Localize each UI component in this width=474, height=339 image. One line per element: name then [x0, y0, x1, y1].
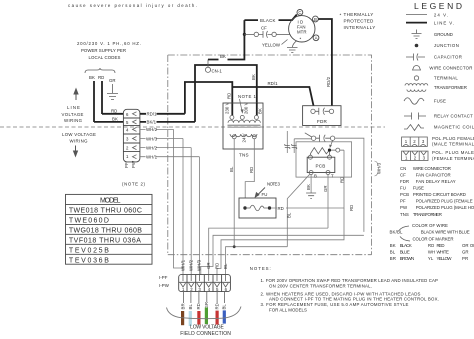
svg-text:RD: RD	[249, 167, 254, 173]
contact 2 symbol	[316, 135, 331, 142]
svg-text:TWE018 THRU 060C: TWE018 THRU 060C	[69, 208, 142, 215]
legend junction	[415, 44, 419, 48]
svg-text:(MALE TERMINAL): (MALE TERMINAL)	[432, 141, 474, 146]
svg-text:BK: BK	[112, 117, 118, 122]
svg-text:GR: GR	[109, 78, 116, 83]
ground symbol pcb	[306, 193, 316, 198]
svg-text:200/230 V. 1 PH.,60 HZ.: 200/230 V. 1 PH.,60 HZ.	[77, 41, 141, 46]
svg-text:RD: RD	[278, 206, 284, 211]
wire WH/2 row out of block	[140, 128, 174, 130]
svg-text:2: 2	[126, 146, 129, 151]
inline plug symbols	[285, 144, 297, 149]
svg-text:VOLTAGE: VOLTAGE	[62, 112, 84, 117]
contact 2 arm diagonal	[305, 133, 312, 137]
svg-text:2: 2	[414, 156, 417, 161]
wire dot up to contact	[331, 140, 333, 146]
model table box	[66, 194, 153, 264]
svg-text:AND CONNECT I-PF TO THE MATING: AND CONNECT I-PF TO THE MATING PLUG IN T…	[269, 297, 439, 302]
transformer primary terminals	[230, 115, 234, 119]
svg-text:BK: BK	[89, 75, 95, 80]
svg-text:BR: BR	[390, 256, 396, 261]
svg-text:B: B	[314, 17, 317, 22]
circuit board PCB box	[307, 157, 335, 172]
field wire light blue	[189, 311, 192, 326]
ground symbol motor	[287, 48, 298, 53]
wire dot to PCB top	[329, 152, 331, 156]
svg-text:BL: BL	[223, 263, 228, 269]
svg-text:RD/2: RD/2	[326, 76, 331, 87]
coil right terminal	[336, 148, 340, 152]
svg-text:WIRING: WIRING	[70, 139, 89, 144]
svg-text:PF: PF	[400, 199, 406, 204]
wire WH/2 row 2 out of block	[140, 147, 191, 149]
svg-text:BR: BR	[181, 303, 186, 309]
wire BK motor feed	[208, 20, 244, 59]
svg-text:GR: GR	[462, 250, 469, 255]
transformer primary winding	[228, 120, 260, 123]
wire WH/1 row out of block	[140, 156, 200, 158]
svg-text:WH/1: WH/1	[146, 155, 158, 160]
transformer core	[228, 125, 261, 127]
wire BK power drop	[93, 81, 95, 122]
wire RD to terminal block	[102, 113, 124, 115]
bus WH/3 wire	[201, 235, 364, 274]
svg-text:T: T	[331, 174, 334, 179]
bus BL wire	[226, 247, 288, 275]
legend capacitor	[406, 54, 425, 61]
svg-text:TEV025B: TEV025B	[69, 248, 109, 255]
svg-text:BL: BL	[188, 304, 193, 310]
svg-text:1: 1	[405, 139, 408, 144]
svg-text:TWG018 THRU 060B: TWG018 THRU 060B	[69, 228, 142, 235]
svg-text:FUSE: FUSE	[413, 185, 424, 190]
svg-text:ON 200V CENTER TRANSFORMER TER: ON 200V CENTER TRANSFORMER TERMINAL.	[269, 283, 372, 288]
svg-text:1: 1	[405, 156, 408, 161]
motor terminal B	[313, 16, 319, 22]
wire RD/2 from motor B to FDR	[318, 19, 332, 106]
svg-text:NOTE 1: NOTE 1	[238, 94, 257, 99]
wire BK/1 out of block	[140, 121, 195, 123]
wire RD into transformer	[231, 87, 233, 115]
svg-text:COLOR OF WIRE: COLOR OF WIRE	[412, 223, 448, 228]
svg-text:YELLOW: YELLOW	[437, 256, 453, 261]
wire RD power drop	[101, 81, 103, 114]
svg-text:FU: FU	[262, 192, 268, 197]
svg-text:PROTECTED: PROTECTED	[344, 19, 374, 24]
wire RD/1 branch to FDR	[232, 87, 313, 106]
magnetic coil zigzag	[311, 148, 330, 155]
svg-text:GR: GR	[323, 185, 328, 192]
svg-text:*: *	[300, 37, 302, 42]
svg-text:INTERNALLY: INTERNALLY	[344, 25, 376, 30]
svg-text:JUNCTION: JUNCTION	[434, 43, 459, 48]
svg-text:3: 3	[423, 156, 426, 161]
terminal block row separators	[123, 118, 139, 152]
svg-text:BK: BK	[257, 108, 262, 114]
svg-text:BLACK: BLACK	[260, 18, 276, 23]
svg-text:BK: BK	[251, 74, 256, 80]
svg-text:5: 5	[126, 120, 129, 125]
svg-text:1: 1	[126, 154, 129, 159]
svg-text:YELLOW: YELLOW	[262, 43, 281, 48]
svg-text:2: 2	[413, 139, 416, 144]
svg-text:CF: CF	[261, 26, 267, 31]
wire to fan capacitor	[244, 33, 254, 35]
legend transformer	[405, 84, 428, 86]
wire drop WH b	[182, 139, 184, 275]
svg-text:FAN DELAY RELAY: FAN DELAY RELAY	[416, 179, 456, 184]
svg-text:BL: BL	[229, 166, 234, 172]
svg-text:FDR: FDR	[400, 179, 409, 184]
svg-text:WIRING: WIRING	[64, 118, 83, 123]
transformer TNS box	[223, 103, 263, 149]
svg-text:NOTES:: NOTES:	[250, 266, 271, 271]
svg-text:MODEL: MODEL	[100, 198, 121, 205]
wire GR ground lead	[112, 84, 114, 93]
wire RD/1 riser	[185, 82, 232, 114]
svg-text:CF: CF	[400, 172, 406, 177]
wire drop WH c	[190, 148, 192, 275]
low voltage down arrow	[75, 146, 77, 153]
svg-text:3: 3	[126, 137, 129, 142]
svg-text:WIRE CONNECTOR: WIRE CONNECTOR	[429, 66, 472, 71]
connector female V terminals	[180, 283, 228, 287]
wire BK to ground	[310, 175, 312, 194]
svg-text:BK/BL: BK/BL	[390, 230, 404, 235]
svg-text:FOR ALL MODELS: FOR ALL MODELS	[269, 307, 307, 312]
svg-text:230 V: 230 V	[224, 102, 229, 114]
svg-text:RD: RD	[227, 93, 232, 99]
low/line voltage divider dashed	[0, 126, 385, 128]
svg-text:LINE V.: LINE V.	[434, 20, 454, 25]
svg-text:TEV036B: TEV036B	[69, 257, 109, 264]
svg-text:LINE: LINE	[67, 105, 80, 110]
svg-text:BLACK: BLACK	[400, 243, 412, 248]
svg-text:GR: GR	[206, 262, 211, 269]
wire RD secondary to fuse	[245, 139, 254, 198]
svg-text:FAN CAPACITOR: FAN CAPACITOR	[416, 172, 451, 177]
svg-text:BROWN: BROWN	[400, 256, 415, 261]
field wire red 1	[197, 311, 200, 325]
svg-text:PW: PW	[400, 205, 408, 210]
svg-text:PF: PF	[124, 162, 129, 168]
legend ground	[412, 30, 422, 39]
svg-text:(NOTE 2): (NOTE 2)	[122, 182, 146, 187]
svg-text:LOW VOLTAGE: LOW VOLTAGE	[62, 132, 96, 137]
svg-text:RED: RED	[437, 243, 445, 248]
note1 arrow	[240, 99, 243, 112]
PCB assembly outer box	[296, 142, 352, 177]
svg-text:TRANSFORMER: TRANSFORMER	[413, 212, 442, 217]
svg-text:RD: RD	[214, 303, 219, 309]
svg-text:RD: RD	[349, 205, 354, 211]
legend pol plug female	[402, 137, 428, 146]
legend fuse	[404, 98, 424, 105]
svg-text:TWE060D: TWE060D	[69, 218, 109, 225]
svg-text:RD/1: RD/1	[268, 81, 279, 86]
svg-text:BL: BL	[390, 250, 396, 255]
fuse junction dots	[243, 206, 246, 209]
svg-text:GROUND: GROUND	[434, 32, 453, 37]
svg-text:TRANSFORMER: TRANSFORMER	[434, 85, 467, 90]
connector cell dividers	[187, 275, 222, 292]
svg-text:6: 6	[126, 112, 129, 117]
svg-text:NOTE 3: NOTE 3	[267, 182, 281, 187]
svg-text:WH/3: WH/3	[146, 136, 158, 141]
yellow label pointer	[282, 40, 288, 45]
unit enclosure dash-dot boundary	[168, 55, 372, 255]
svg-text:C: C	[298, 10, 301, 15]
FDR contact symbol	[315, 108, 329, 115]
svg-text:BK/1: BK/1	[147, 120, 157, 125]
bus GR wire	[209, 228, 328, 275]
FDR contact terminals	[311, 109, 315, 113]
svg-text:BLUE: BLUE	[400, 250, 410, 255]
svg-text:cause severe personal injury o: cause severe personal injury or death.	[68, 3, 197, 8]
wire plug vertical I-PF	[286, 131, 288, 153]
transformer secondary terminals	[232, 135, 236, 139]
svg-text:WH/1: WH/1	[180, 259, 185, 271]
svg-text:BL: BL	[222, 304, 227, 310]
svg-text:POWER SUPPLY PER: POWER SUPPLY PER	[81, 48, 126, 53]
svg-text:CN-1: CN-1	[212, 69, 223, 74]
brace over power wires	[85, 68, 115, 73]
relay contact 2 left lead	[294, 138, 311, 140]
motor terminal C	[297, 10, 303, 16]
color of wire pointer	[399, 226, 409, 231]
connector pins top row	[183, 275, 226, 281]
svg-text:A: A	[315, 36, 318, 41]
svg-text:*: *	[340, 13, 342, 18]
wire BK/1 riser to transformer	[195, 65, 257, 122]
wire yellow cap to motor	[276, 33, 289, 35]
svg-text:RELAY CONTACT: RELAY CONTACT	[434, 114, 473, 119]
svg-text:THERMALLY: THERMALLY	[344, 12, 374, 17]
svg-text:3: 3	[422, 139, 425, 144]
svg-text:RD: RD	[339, 177, 344, 183]
svg-text:WIRE CONNECTOR: WIRE CONNECTOR	[413, 166, 451, 171]
PCB top terminals	[308, 155, 312, 159]
svg-text:1. FOR 200V OPERATION SWAP RED: 1. FOR 200V OPERATION SWAP RED TRANSFORM…	[261, 278, 439, 283]
motor ID FAN MTR body	[289, 16, 315, 42]
contact 2 terminals	[311, 136, 315, 140]
capacitor CF terminals	[254, 32, 258, 36]
junction BL transformer	[233, 245, 236, 248]
svg-text:24 V.: 24 V.	[434, 12, 448, 17]
connector lead stubs	[183, 292, 224, 303]
svg-text:RD: RD	[111, 109, 117, 114]
svg-text:B: B	[314, 174, 317, 179]
svg-text:FDR: FDR	[317, 119, 328, 124]
capacitor CF symbol	[259, 31, 272, 38]
fuse element	[247, 205, 268, 211]
wire WH/3 row out of block	[140, 138, 183, 140]
legend relay contact	[404, 113, 426, 120]
svg-text:TERMINAL: TERMINAL	[434, 76, 459, 81]
connector plug PF/PW body	[179, 275, 231, 292]
legend pol plug male	[402, 151, 428, 160]
svg-text:24 V: 24 V	[242, 133, 247, 142]
transformer secondary winding	[230, 134, 257, 137]
svg-text:COLOR OF MARKER: COLOR OF MARKER	[413, 237, 454, 242]
svg-text:RD: RD	[98, 75, 104, 80]
model table row lines	[66, 204, 153, 254]
PCB bottom terminals	[309, 171, 313, 175]
gather brace	[167, 307, 242, 319]
svg-text:PRINTED CIRCUIT BOARD: PRINTED CIRCUIT BOARD	[413, 192, 466, 197]
svg-text:I-PF: I-PF	[159, 275, 168, 280]
terminal block TB body	[123, 109, 139, 162]
connector mid line	[179, 281, 231, 283]
legend line V	[406, 22, 427, 24]
svg-text:BK: BK	[220, 54, 226, 59]
wire BL secondary	[233, 139, 235, 247]
svg-text:YL: YL	[428, 256, 434, 261]
svg-text:WHITE: WHITE	[437, 250, 450, 255]
svg-text:PR: PR	[462, 256, 468, 261]
fuse FU box	[239, 198, 276, 218]
wire connector CN-1	[205, 67, 210, 72]
terminal block female terminals	[133, 112, 137, 159]
ground symbol power	[107, 94, 118, 100]
line voltage up arrow	[75, 92, 77, 100]
svg-text:POL. PLUG MALE: POL. PLUG MALE	[432, 150, 474, 155]
wire drop WH d	[198, 157, 200, 275]
svg-text:MTR: MTR	[297, 30, 307, 35]
svg-text:RD: RD	[428, 243, 434, 248]
svg-text:WH: WH	[428, 250, 435, 255]
note3 arrow	[257, 188, 265, 196]
svg-text:PW: PW	[131, 160, 136, 168]
field wire blue	[223, 310, 226, 323]
svg-text:BL: BL	[287, 212, 292, 218]
wire RD fuse output	[271, 150, 344, 208]
svg-text:FIELD CONNECTION: FIELD CONNECTION	[180, 331, 231, 337]
bus RD wire	[217, 208, 344, 275]
svg-text:RD: RD	[196, 303, 201, 309]
svg-text:WH/2: WH/2	[189, 259, 194, 271]
svg-text:LOCAL CODES: LOCAL CODES	[89, 55, 121, 60]
legend terminal	[414, 76, 418, 80]
legend magnetic coil	[404, 125, 424, 131]
svg-text:OR OR: OR OR	[462, 243, 474, 248]
wire contact2 right to WH/3 riser	[335, 138, 364, 232]
svg-text:BK: BK	[306, 184, 311, 190]
svg-text:RD/1: RD/1	[147, 112, 158, 117]
wire BK into transformer	[256, 103, 258, 115]
svg-text:LOW VOLTAGE: LOW VOLTAGE	[190, 324, 224, 330]
svg-text:TNS: TNS	[239, 153, 249, 158]
svg-text:FUSE: FUSE	[434, 99, 446, 104]
svg-text:PCB: PCB	[400, 192, 409, 197]
svg-text:LEGEND: LEGEND	[414, 1, 465, 11]
wire GR down	[327, 175, 329, 229]
svg-text:POLARIZED PLUG (MALE HOL: POLARIZED PLUG (MALE HOL	[416, 205, 474, 210]
wire BL diagonal	[287, 174, 310, 247]
svg-text:CAPACITOR: CAPACITOR	[434, 55, 462, 60]
wire BLACK motor lead	[244, 15, 296, 21]
svg-text:I-PW: I-PW	[159, 283, 170, 288]
svg-text:TVF018 THRU 036A: TVF018 THRU 036A	[69, 238, 141, 245]
color of marker pointer	[400, 237, 410, 242]
svg-text:200 V: 200 V	[243, 102, 248, 114]
svg-text:4: 4	[126, 128, 129, 133]
svg-text:MAGNETIC COIL.: MAGNETIC COIL.	[434, 125, 474, 130]
field wire red 2	[216, 311, 219, 325]
svg-text:POLARIZED PLUG (FEMALE: POLARIZED PLUG (FEMALE	[416, 199, 473, 204]
wire drop WH a	[174, 129, 184, 268]
svg-text:POL.PLUG FEMALE: POL.PLUG FEMALE	[432, 136, 474, 141]
svg-text:FU: FU	[400, 185, 406, 190]
junction dot coil	[328, 149, 331, 152]
svg-text:CN: CN	[400, 166, 406, 171]
junction dot black/cap	[243, 33, 246, 36]
relay FDR box	[303, 106, 341, 126]
svg-text:WH/2: WH/2	[146, 127, 158, 132]
wire RD/1 out of block	[140, 113, 185, 115]
svg-text:WH/3: WH/3	[197, 259, 202, 271]
svg-text:PCB: PCB	[316, 163, 326, 168]
legend wire connector	[413, 66, 421, 71]
motor terminal A	[313, 35, 319, 41]
svg-text:TNS: TNS	[400, 212, 409, 217]
svg-text:BK: BK	[390, 243, 396, 248]
svg-text:BLACK WIRE WITH BLUE: BLACK WIRE WITH BLUE	[421, 230, 470, 235]
motor ground lead	[292, 41, 297, 48]
field wire green	[205, 308, 208, 325]
svg-text:(FEMALE TERMINAL): (FEMALE TERMINAL)	[432, 156, 474, 161]
field wire brown	[181, 311, 184, 325]
legend 24V line	[406, 14, 427, 16]
svg-text:WH/2: WH/2	[146, 145, 158, 150]
svg-text:RD: RD	[214, 263, 219, 269]
wire plug vertical I-PW	[293, 139, 295, 153]
wire BK to terminal block	[94, 121, 124, 123]
